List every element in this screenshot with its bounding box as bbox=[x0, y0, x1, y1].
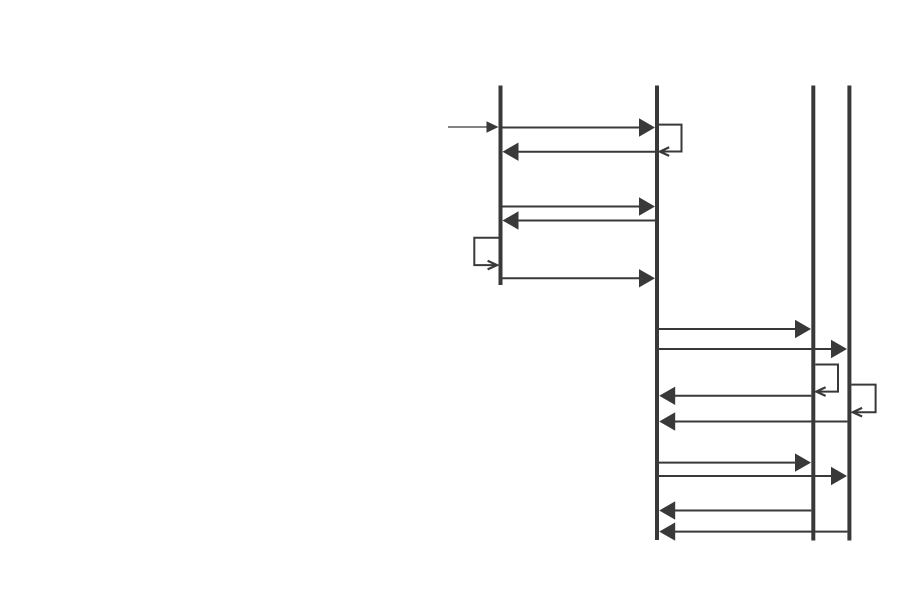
self-call loop on L1 bbox=[474, 238, 498, 270]
return R5 L3 to L2 bbox=[659, 501, 811, 519]
return R1 L2 to L1 bbox=[503, 143, 656, 161]
message M1 L1 to L2 bbox=[503, 118, 656, 136]
lifeline L4 bbox=[847, 86, 851, 541]
message M3 L1 to L2 bbox=[503, 269, 656, 287]
message M4 L2 to L3 bbox=[659, 320, 811, 338]
self-call loop on L2 bbox=[659, 125, 682, 156]
lifeline L2 bbox=[655, 86, 659, 541]
self-call loop on L3 bbox=[815, 365, 838, 396]
return R6 L4 to L2 bbox=[659, 522, 847, 540]
return R4 L4 to L2 bbox=[659, 412, 847, 430]
message M2 L1 to L2 bbox=[503, 197, 656, 215]
lifeline L1 bbox=[499, 86, 503, 286]
found message arrow into L1 bbox=[448, 121, 499, 133]
lifeline L3 bbox=[811, 86, 815, 541]
return R3 L3 to L2 bbox=[659, 387, 811, 405]
self-call loop on L4 bbox=[851, 385, 875, 417]
message M7 L2 to L4 bbox=[659, 467, 847, 485]
return R2 L2 to L1 bbox=[503, 211, 656, 229]
message M6 L2 to L3 bbox=[659, 453, 811, 471]
message M5 L2 to L4 bbox=[659, 340, 847, 358]
